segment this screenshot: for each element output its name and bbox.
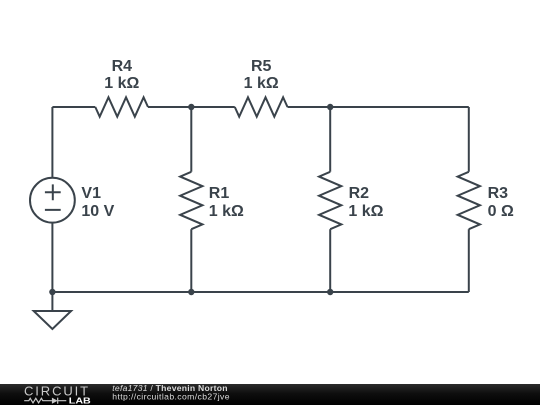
wire R3 lower — [468, 229, 470, 292]
node junction dot bottom R1 — [188, 289, 194, 295]
wire R1 lower — [190, 229, 192, 292]
svg-text:R5: R5 — [251, 58, 272, 75]
svg-text:0 Ω: 0 Ω — [488, 203, 514, 220]
svg-text:http://circuitlab.com/cb27jve: http://circuitlab.com/cb27jve — [112, 392, 230, 402]
resistor R5 — [235, 97, 288, 116]
logo diode — [52, 398, 58, 404]
wire left vertical lower — [51, 223, 53, 292]
ground stub — [51, 292, 53, 311]
wire R2 lower — [329, 229, 331, 292]
svg-text:R1: R1 — [209, 185, 230, 202]
wire R2 upper — [329, 107, 331, 172]
svg-text:R4: R4 — [112, 58, 133, 75]
wire bottom horizontal — [52, 291, 468, 293]
resistor R2 — [319, 172, 341, 229]
node junction dot top R2 — [327, 104, 333, 110]
resistor R4 — [95, 97, 148, 116]
logo resistor squiggle — [24, 398, 52, 403]
node junction dot bottom left — [49, 289, 55, 295]
svg-text:1 kΩ: 1 kΩ — [244, 75, 279, 92]
ground — [34, 311, 71, 329]
V1 minus sign — [45, 209, 61, 211]
wire top middle — [148, 106, 235, 108]
resistor R3 — [458, 172, 480, 229]
wire R1 upper — [190, 107, 192, 172]
svg-text:1 kΩ: 1 kΩ — [348, 203, 383, 220]
svg-text:LAB: LAB — [69, 395, 91, 405]
svg-text:1 kΩ: 1 kΩ — [104, 75, 139, 92]
node junction dot top R1 — [188, 104, 194, 110]
svg-text:10 V: 10 V — [81, 203, 114, 220]
wire top right — [288, 106, 469, 108]
svg-text:R2: R2 — [349, 185, 370, 202]
node junction dot bottom R2 — [327, 289, 333, 295]
wire top-left horizontal — [52, 106, 95, 108]
resistor R1 — [180, 172, 202, 229]
wire left vertical upper — [51, 107, 53, 178]
V1 plus sign — [45, 184, 61, 200]
voltage source V1 — [30, 178, 75, 223]
svg-text:V1: V1 — [81, 185, 101, 202]
svg-text:R3: R3 — [488, 185, 509, 202]
svg-text:1 kΩ: 1 kΩ — [209, 203, 244, 220]
wire R3 upper — [468, 107, 470, 172]
